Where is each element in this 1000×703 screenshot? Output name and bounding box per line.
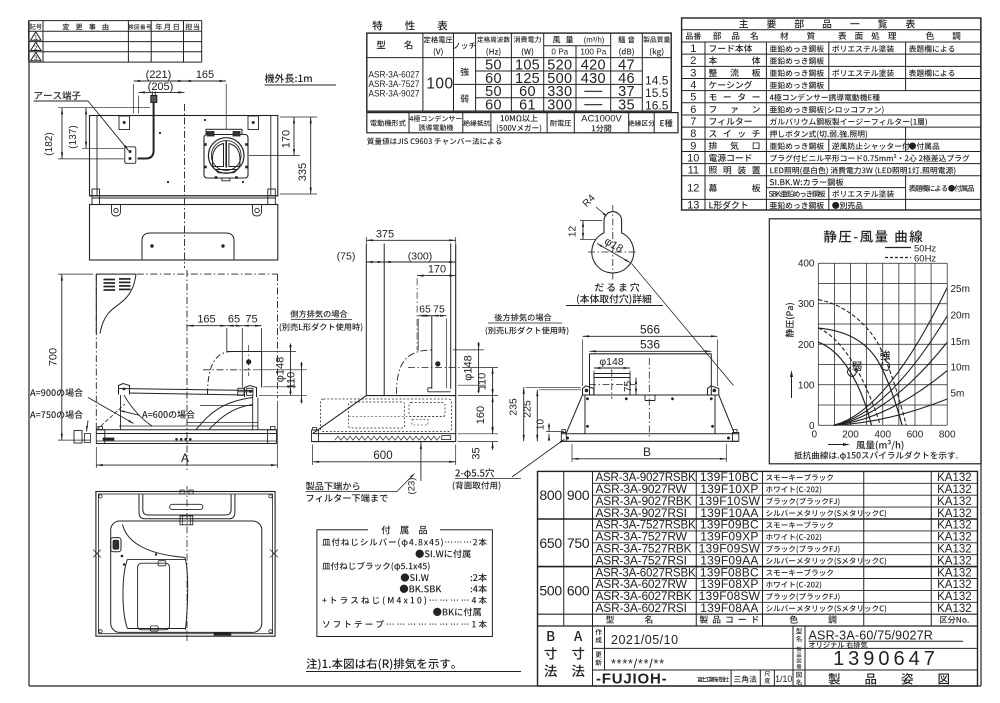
svg-text:75: 75 bbox=[433, 304, 445, 316]
svg-text:139F08AA: 139F08AA bbox=[700, 601, 758, 615]
dim 160 side bbox=[458, 433, 498, 435]
product drawing number label bbox=[797, 647, 802, 652]
side view hood front slant bbox=[313, 396, 367, 434]
svg-text:300: 300 bbox=[547, 98, 572, 114]
svg-text:1: 1 bbox=[34, 35, 38, 42]
strong label with swirl bbox=[880, 350, 890, 360]
svg-text:800: 800 bbox=[539, 487, 562, 503]
svg-text:1390647: 1390647 bbox=[833, 648, 939, 670]
dim A bbox=[96, 464, 277, 466]
dim 165 top bbox=[185, 80, 227, 82]
spec table bbox=[367, 33, 671, 111]
filter bottom note bbox=[306, 482, 360, 491]
rear view keyhole bracket left bbox=[583, 386, 594, 395]
keyhole (daruma hole) detail bbox=[592, 212, 634, 273]
graph grid bbox=[817, 263, 819, 425]
svg-text:9: 9 bbox=[690, 140, 696, 152]
svg-text:A: A bbox=[181, 451, 189, 465]
revision table headers bbox=[30, 24, 42, 30]
earth terminal box bbox=[125, 147, 136, 164]
dim 110 side bbox=[462, 367, 498, 369]
top view center line bbox=[184, 104, 186, 268]
svg-text:600: 600 bbox=[373, 450, 392, 462]
dim 566 bbox=[583, 335, 718, 337]
graph title bbox=[824, 230, 923, 243]
svg-text:ASR-3A-60/75/9027R: ASR-3A-60/75/9027R bbox=[809, 629, 934, 643]
svg-text:400: 400 bbox=[798, 259, 815, 270]
graph y axis title bbox=[785, 303, 794, 337]
spec table title bbox=[372, 21, 447, 31]
svg-text:5m: 5m bbox=[951, 389, 965, 400]
front view interior lines bbox=[200, 405, 253, 407]
svg-text:100 Pa: 100 Pa bbox=[580, 48, 606, 57]
svg-text:165: 165 bbox=[196, 69, 214, 81]
parts table bbox=[682, 18, 981, 210]
svg-text:KA132: KA132 bbox=[937, 472, 972, 484]
front duct center lines bbox=[203, 369, 252, 371]
side view hood top bbox=[366, 395, 455, 397]
svg-text:(75): (75) bbox=[337, 251, 356, 263]
dim (221) bbox=[134, 80, 185, 82]
svg-text:φ148: φ148 bbox=[463, 355, 475, 381]
projection method bbox=[734, 675, 757, 682]
svg-text:φ18: φ18 bbox=[602, 235, 625, 255]
front view body top edge bbox=[119, 389, 254, 391]
dim 335 right bbox=[310, 117, 312, 194]
baffle bracket tab bbox=[180, 516, 193, 525]
spec note bbox=[367, 138, 501, 145]
svg-text:65: 65 bbox=[419, 304, 431, 316]
svg-text:R4: R4 bbox=[581, 193, 598, 210]
keyhole center lines bbox=[612, 205, 614, 280]
svg-text:100: 100 bbox=[426, 76, 453, 93]
exhaust outlet circles bbox=[208, 138, 244, 174]
dim B bbox=[572, 458, 726, 460]
top view flange bbox=[90, 195, 278, 197]
svg-text:5: 5 bbox=[690, 92, 696, 104]
top view lower section bbox=[90, 205, 278, 261]
svg-text:235: 235 bbox=[508, 398, 520, 416]
svg-text:7: 7 bbox=[690, 116, 696, 128]
svg-text:ASR-3A-6027RSI: ASR-3A-6027RSI bbox=[596, 601, 687, 615]
svg-text:16.5: 16.5 bbox=[645, 99, 669, 113]
svg-text:400: 400 bbox=[874, 430, 891, 441]
front duct elbow bbox=[226, 328, 228, 352]
svg-text:B: B bbox=[643, 445, 651, 459]
bottom view top edge clips bbox=[180, 490, 184, 494]
front view dome curves bbox=[196, 398, 253, 430]
svg-text:2: 2 bbox=[690, 55, 696, 67]
svg-text:170: 170 bbox=[281, 130, 293, 148]
svg-text:75: 75 bbox=[623, 381, 634, 393]
keyhole labels bbox=[595, 283, 639, 292]
svg-text:375: 375 bbox=[376, 229, 394, 241]
product table header row bbox=[606, 615, 652, 623]
svg-text:20m: 20m bbox=[951, 311, 970, 322]
side exhaust label bbox=[290, 310, 347, 318]
vent slots bbox=[104, 279, 116, 281]
rear view center line bbox=[648, 358, 650, 437]
svg-text:φ148: φ148 bbox=[599, 356, 623, 368]
rear exhaust knockout bbox=[594, 373, 630, 375]
svg-text:****/**/**: ****/**/** bbox=[611, 657, 665, 671]
svg-text:0 Pa: 0 Pa bbox=[551, 48, 568, 57]
svg-text:(182): (182) bbox=[44, 132, 55, 155]
svg-text:(221): (221) bbox=[146, 69, 172, 81]
svg-text:12: 12 bbox=[687, 183, 699, 195]
dim 170 side bbox=[417, 275, 456, 277]
svg-text:100: 100 bbox=[798, 380, 815, 391]
svg-text:3: 3 bbox=[34, 55, 38, 62]
rear knockout center lines bbox=[611, 370, 613, 400]
dim 536 bbox=[590, 350, 712, 352]
svg-text:650: 650 bbox=[539, 535, 562, 551]
graph x axis title bbox=[828, 444, 848, 446]
svg-text:(137): (137) bbox=[68, 125, 79, 148]
svg-text:(300): (300) bbox=[408, 251, 433, 263]
lamp bbox=[111, 538, 121, 552]
revision table bbox=[29, 20, 202, 22]
leader crossing lines bbox=[97, 404, 126, 430]
accessories title bbox=[382, 526, 428, 535]
svg-text:3: 3 bbox=[690, 67, 696, 79]
svg-text:KA132: KA132 bbox=[937, 496, 972, 508]
svg-text:(m³/h): (m³/h) bbox=[584, 36, 605, 45]
dim 10 rear bbox=[546, 430, 564, 432]
spec table notch strong/weak bbox=[461, 68, 469, 76]
rear view base bbox=[561, 433, 739, 435]
B size / A size labels bbox=[547, 631, 554, 641]
front duct screw hole bbox=[246, 359, 251, 364]
fan curve weak 60Hz dashed bbox=[818, 328, 880, 425]
svg-text:170: 170 bbox=[428, 264, 446, 276]
exhaust plate screws bbox=[204, 143, 207, 146]
fan curve weak 50Hz bbox=[818, 342, 871, 425]
side view wall lines bbox=[450, 244, 452, 389]
dim 75 rear bbox=[635, 378, 637, 396]
svg-text:25m: 25m bbox=[951, 284, 970, 295]
svg-text:335: 335 bbox=[297, 163, 309, 181]
bottom opening panel bbox=[111, 521, 262, 632]
fan curve strong 50Hz bbox=[818, 328, 902, 425]
dim extension lines right bbox=[280, 116, 317, 118]
svg-text:(205): (205) bbox=[148, 81, 174, 93]
filter screw dots bbox=[121, 555, 124, 558]
note right exhaust bbox=[306, 658, 454, 670]
performance graph box bbox=[769, 219, 981, 464]
bottom view corner screws bbox=[99, 495, 102, 498]
power cord bbox=[138, 103, 154, 159]
side view duct center line bbox=[408, 367, 460, 369]
svg-text:ASR-3A-6027: ASR-3A-6027 bbox=[369, 70, 420, 80]
front view left lug bbox=[119, 384, 130, 395]
svg-text:AC1000V: AC1000V bbox=[581, 114, 622, 125]
svg-text:35: 35 bbox=[618, 98, 635, 114]
svg-text:KA132: KA132 bbox=[937, 532, 972, 544]
front view A900 outline dash-dot bbox=[95, 274, 97, 433]
svg-text:KA132: KA132 bbox=[937, 508, 972, 520]
side view duct cover front bbox=[365, 244, 367, 396]
bottom dome curve bbox=[123, 525, 186, 558]
svg-text:11: 11 bbox=[688, 165, 699, 177]
svg-text:KA132: KA132 bbox=[937, 603, 972, 615]
svg-text:KA132: KA132 bbox=[937, 520, 972, 532]
side view duct tube bbox=[431, 316, 433, 389]
dim (182) bbox=[61, 108, 63, 159]
rear mounting holes note bbox=[455, 468, 494, 478]
svg-text:10: 10 bbox=[687, 153, 699, 165]
earth terminal label bbox=[35, 91, 81, 100]
svg-text:KA132: KA132 bbox=[937, 555, 972, 567]
created / updated labels bbox=[595, 629, 601, 635]
spec table headers bbox=[377, 40, 413, 49]
A750 A900 base end marks bbox=[74, 431, 82, 444]
exhaust damper flaps bbox=[213, 144, 224, 167]
svg-text:600: 600 bbox=[907, 430, 924, 441]
side view elbow arc dash-dot bbox=[397, 350, 432, 394]
filter clips bbox=[158, 561, 166, 566]
svg-text:10: 10 bbox=[536, 419, 547, 431]
side view hidden filter outline bbox=[321, 399, 452, 432]
edge registration marks bbox=[93, 550, 101, 558]
svg-text:165: 165 bbox=[197, 314, 215, 326]
duct resistance curves bbox=[834, 288, 948, 426]
graph legend bbox=[885, 247, 911, 249]
title block bbox=[592, 626, 594, 686]
drawing title bbox=[828, 673, 949, 685]
dim 700 bbox=[61, 274, 63, 440]
svg-text:KA132: KA132 bbox=[937, 591, 972, 603]
graph note bbox=[794, 451, 957, 460]
dim (137) bbox=[85, 108, 87, 149]
side view elbow bottom bracket bbox=[428, 387, 432, 389]
svg-text:35: 35 bbox=[471, 447, 483, 459]
svg-text:500: 500 bbox=[539, 582, 562, 598]
rear base end caps bbox=[561, 433, 566, 442]
parts table headers bbox=[686, 32, 701, 39]
dim phi148 front bbox=[233, 351, 296, 353]
svg-text:8: 8 bbox=[690, 128, 696, 140]
front base slot and holes bbox=[103, 438, 114, 441]
svg-text:1/10: 1/10 bbox=[775, 674, 792, 684]
dim extension lines top bbox=[133, 84, 135, 114]
dim (23) filter depth bbox=[420, 442, 422, 481]
dim 225 rear bbox=[539, 389, 581, 391]
svg-text:65: 65 bbox=[228, 314, 240, 326]
graph y axis arrow bbox=[791, 372, 793, 398]
rear view top notch bbox=[645, 395, 655, 401]
side view duct screw hole bbox=[435, 361, 440, 366]
front duct flange lugs bbox=[238, 388, 244, 395]
front view right lug bbox=[245, 386, 257, 398]
revision marks (triangles 1,2,3) bbox=[31, 32, 41, 40]
svg-text:13: 13 bbox=[687, 200, 699, 212]
accessories box bbox=[317, 530, 493, 637]
baffle handle slot bbox=[170, 504, 203, 509]
dim 65 75 side bbox=[418, 315, 432, 317]
svg-text:900: 900 bbox=[567, 487, 590, 503]
weak label with swirl bbox=[852, 362, 861, 371]
product table bbox=[538, 471, 978, 686]
svg-text:KA132: KA132 bbox=[937, 579, 972, 591]
rear exhaust label bbox=[494, 314, 551, 322]
side view base rear step bbox=[442, 436, 451, 440]
side view soft tape zigzag bbox=[335, 436, 440, 440]
top view body bbox=[90, 116, 278, 196]
svg-text:10m: 10m bbox=[951, 363, 970, 374]
baffle recess U-shape bbox=[139, 494, 235, 519]
svg-text:60: 60 bbox=[485, 98, 502, 114]
svg-text:KA132: KA132 bbox=[937, 544, 972, 556]
svg-text:160: 160 bbox=[475, 406, 487, 424]
svg-text:4: 4 bbox=[690, 80, 696, 92]
svg-text:0: 0 bbox=[812, 430, 818, 441]
front view base strip bbox=[96, 429, 276, 431]
rear view lower body bbox=[584, 395, 586, 434]
bottom view outer rect bbox=[96, 492, 275, 637]
svg-text:12: 12 bbox=[568, 226, 579, 238]
svg-text:536: 536 bbox=[640, 338, 660, 352]
dim 110 front bbox=[253, 369, 307, 371]
page frame bbox=[28, 21, 30, 686]
svg-text:KA132: KA132 bbox=[937, 567, 972, 579]
svg-text:110: 110 bbox=[286, 372, 298, 390]
svg-text:200: 200 bbox=[842, 430, 859, 441]
phi18 label and leader bbox=[597, 244, 630, 263]
rear view side slants bbox=[566, 395, 583, 434]
motor spec table bbox=[367, 113, 678, 133]
exhaust adapter plate bbox=[204, 135, 248, 179]
svg-text:61: 61 bbox=[519, 98, 536, 114]
rear view shoulder line bbox=[583, 394, 719, 396]
dim phi148 rear bbox=[594, 367, 630, 369]
svg-text:-FUJIOH-: -FUJIOH- bbox=[596, 671, 667, 688]
A size case labels bbox=[30, 388, 83, 396]
front view center line bbox=[186, 270, 188, 470]
parts table title bbox=[739, 19, 915, 28]
dim 600 bbox=[313, 461, 456, 463]
svg-text:800: 800 bbox=[939, 430, 956, 441]
fan curve strong 60Hz dashed bbox=[818, 300, 906, 426]
svg-text:110: 110 bbox=[477, 373, 489, 391]
svg-text:200: 200 bbox=[798, 340, 815, 351]
dim 35 side bbox=[458, 441, 498, 443]
front duct cover fragment bbox=[96, 273, 136, 275]
rear view screw dots bbox=[586, 397, 589, 400]
dim extension lines left bbox=[58, 107, 150, 109]
cable length note bbox=[265, 74, 312, 83]
svg-text:430: 430 bbox=[581, 71, 606, 87]
side view base bbox=[313, 433, 456, 435]
power cord plug bbox=[151, 96, 157, 103]
svg-text:75: 75 bbox=[245, 314, 257, 326]
dim 165 65 75 front bbox=[187, 325, 227, 327]
svg-text:750: 750 bbox=[567, 535, 590, 551]
filter inner frame bbox=[138, 563, 170, 630]
svg-text:700: 700 bbox=[48, 348, 60, 366]
svg-text:2: 2 bbox=[34, 45, 38, 52]
drawing name label bbox=[796, 672, 801, 678]
rear view keyhole bracket right bbox=[708, 386, 719, 395]
top view screw tabs bbox=[112, 205, 121, 217]
top view left bracket bbox=[119, 116, 130, 130]
bottom view center line bbox=[186, 486, 188, 641]
model name label bbox=[796, 628, 802, 634]
svg-text:300: 300 bbox=[798, 299, 815, 310]
dim (205) bbox=[138, 91, 184, 93]
leader to rear view bbox=[632, 264, 734, 386]
svg-text:ASR-3A-7527: ASR-3A-7527 bbox=[369, 79, 420, 89]
dim (75) (300) bbox=[366, 261, 384, 263]
top view right bracket bbox=[248, 116, 259, 130]
svg-text:6: 6 bbox=[690, 104, 696, 116]
bottom border slot bbox=[214, 633, 231, 636]
body screw dots bbox=[159, 132, 161, 134]
dim 235 rear bbox=[526, 386, 582, 388]
dim 170 right bbox=[293, 117, 295, 156]
filter frame left arc bbox=[123, 559, 127, 628]
top view center tab bbox=[142, 233, 234, 260]
svg-text:KA132: KA132 bbox=[937, 484, 972, 496]
side view base front cap bbox=[312, 430, 319, 442]
dim 12 keyhole bbox=[580, 220, 602, 222]
svg-text:15m: 15m bbox=[951, 337, 970, 348]
dim phi148 side bbox=[453, 349, 484, 351]
accessories list bbox=[322, 538, 487, 547]
svg-text:566: 566 bbox=[640, 323, 660, 337]
svg-text:600: 600 bbox=[567, 582, 590, 598]
svg-text:ASR-3A-9027: ASR-3A-9027 bbox=[369, 89, 420, 99]
dim 375 bbox=[366, 239, 455, 241]
svg-text:1: 1 bbox=[690, 43, 696, 55]
rear view upper box bbox=[590, 353, 712, 355]
svg-text:225: 225 bbox=[522, 400, 534, 418]
svg-text:2021/05/10: 2021/05/10 bbox=[611, 633, 679, 647]
